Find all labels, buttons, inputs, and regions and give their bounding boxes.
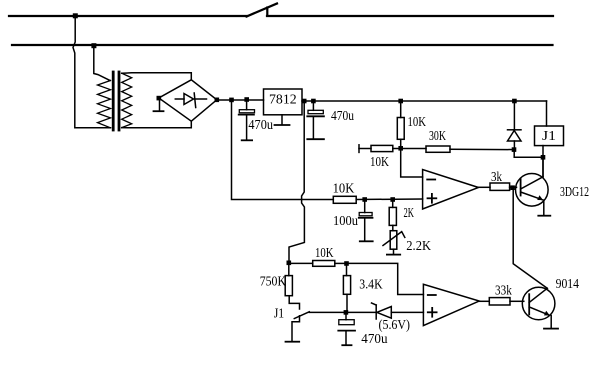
- svg-text:100u: 100u: [333, 213, 358, 228]
- bridge diode cathode lead: [195, 98, 207, 100]
- transformer T core: [112, 72, 115, 130]
- svg-text:7812: 7812: [269, 92, 297, 107]
- switch S fixed contact: [266, 8, 268, 16]
- svg-text:9014: 9014: [556, 276, 580, 291]
- svg-text:2K: 2K: [404, 205, 415, 220]
- bridge left vertex ground mark: [159, 100, 161, 111]
- mains line L2 bottom: [12, 44, 553, 46]
- wire diode bottom to J1 bottom: [514, 150, 543, 158]
- resistor R11 33k: [489, 298, 510, 305]
- wire L2 to transformer primary top: [94, 46, 110, 81]
- wire bridge output to 7812 input: [217, 99, 264, 101]
- svg-text:(5.6V): (5.6V): [379, 317, 411, 332]
- svg-text:3DG12: 3DG12: [560, 184, 589, 199]
- transformer T secondary winding: [122, 73, 132, 127]
- wire base node down to Q2 collector: [513, 190, 547, 288]
- zener diode D2 5.6V: [346, 311, 376, 313]
- svg-text:10K: 10K: [315, 245, 334, 260]
- regulator U1 ground pin: [281, 115, 283, 125]
- svg-text:3k: 3k: [491, 169, 502, 184]
- node on L1: [73, 13, 78, 18]
- transistor Q2 collector: [529, 288, 547, 302]
- transistor Q1 3DG12 circle: [516, 174, 549, 207]
- transistor Q1 emitter: [521, 192, 543, 200]
- svg-text:750K: 750K: [260, 274, 287, 289]
- svg-text:30K: 30K: [429, 128, 446, 143]
- bridge diode anode lead: [175, 98, 184, 100]
- wire rail to relay J1 top: [546, 101, 548, 126]
- svg-text:J1: J1: [542, 128, 556, 143]
- svg-text:470u: 470u: [248, 117, 273, 132]
- transistor Q2 emitter ground: [550, 316, 552, 328]
- bridge rectifier D diamond: [159, 80, 217, 121]
- resistor R1 10K vertical: [400, 101, 402, 118]
- svg-text:10K: 10K: [333, 181, 355, 196]
- capacitor C1 470u: [246, 100, 248, 110]
- resistor R9 750K: [288, 263, 290, 275]
- resistor R2 10K horizontal stub: [358, 145, 360, 153]
- svg-text:10K: 10K: [370, 154, 389, 169]
- svg-text:470u: 470u: [361, 331, 387, 346]
- wire U2 output: [479, 186, 491, 188]
- resistor R10 3.4K: [346, 263, 348, 275]
- transistor Q2 base bar: [528, 294, 530, 314]
- op-amp U2 triangle: [423, 170, 479, 210]
- node 3.4K junction: [344, 261, 349, 266]
- transformer T primary winding: [98, 81, 111, 128]
- wire bridge sense down: [232, 100, 334, 200]
- node on L2: [91, 43, 96, 48]
- op-amp U2 plus: [428, 197, 437, 199]
- capacitor C4 470u: [345, 312, 347, 319]
- diode D1 (relay clamp): [513, 101, 515, 130]
- wire relay J1 bottom to collector: [542, 146, 544, 177]
- node diode D1 bottom: [512, 147, 517, 152]
- capacitor C2 470u: [312, 101, 314, 110]
- wire contact to zener node: [309, 311, 346, 313]
- bridge diode cathode bar: [194, 93, 196, 108]
- wire secondary bottom to bridge: [122, 121, 192, 128]
- regulator U1 7812 box: [264, 89, 303, 115]
- node zener cap junction: [344, 310, 349, 315]
- mains line L1 top: [9, 15, 247, 17]
- node rail to diode D1: [512, 99, 517, 104]
- svg-text:470u: 470u: [331, 108, 354, 123]
- switch S blade: [247, 4, 278, 17]
- node resistor R6 top: [390, 197, 395, 202]
- node base Q1: [510, 185, 515, 190]
- node bridge output sense: [229, 98, 234, 103]
- transistor Q2 9014 circle: [522, 287, 555, 320]
- svg-text:10K: 10K: [408, 114, 427, 129]
- capacitor C3 100u: [364, 200, 366, 213]
- op-amp U2 minus: [427, 179, 435, 181]
- node capacitor C2 top: [311, 99, 316, 104]
- resistor R4 3k: [490, 183, 510, 190]
- wire secondary top to bridge: [122, 73, 192, 80]
- svg-text:33k: 33k: [495, 282, 512, 297]
- wire to op-amp U3 inverting input: [347, 263, 424, 294]
- svg-text:3.4K: 3.4K: [359, 277, 383, 292]
- wire 7812 output down (with hop): [289, 101, 304, 263]
- transistor Q2 emitter: [529, 307, 549, 315]
- resistor R8 10K bottom: [289, 262, 313, 264]
- potentiometer R7 2.2K: [390, 231, 397, 250]
- node capacitor C3 top: [362, 197, 367, 202]
- bridge left vertex node: [157, 96, 162, 101]
- bridge right vertex node: [215, 98, 220, 103]
- op-amp U3 plus: [428, 311, 437, 313]
- node 750K junction: [287, 261, 292, 266]
- transistor Q1 emitter ground: [543, 200, 545, 215]
- node 7812 output: [302, 99, 307, 104]
- resistor R5 10K mid: [333, 196, 356, 203]
- node J1 bottom collector junction: [541, 155, 546, 160]
- node resistor R1 top: [398, 99, 403, 104]
- wire 7812 output rail: [302, 100, 547, 102]
- relay contact J1 switch: [289, 296, 299, 309]
- transistor Q1 collector: [521, 177, 543, 189]
- wire L1 to transformer primary bottom: [73, 16, 111, 128]
- wire U3 output: [479, 300, 489, 302]
- op-amp U3 minus: [428, 294, 436, 296]
- resistor R3 30K: [401, 148, 426, 150]
- wire to op-amp U2 inverting input: [401, 149, 423, 178]
- relay J1 box: [535, 126, 564, 146]
- node R1 R2 R3 junction: [398, 146, 403, 151]
- node capacitor C1 top: [244, 97, 249, 102]
- svg-text:J1: J1: [274, 306, 285, 321]
- svg-text:2.2K: 2.2K: [406, 238, 431, 253]
- bridge diode triangle: [184, 94, 194, 105]
- op-amp U3 triangle: [423, 284, 479, 325]
- transistor Q1 base bar: [520, 179, 522, 196]
- resistor R6 2K: [392, 200, 394, 208]
